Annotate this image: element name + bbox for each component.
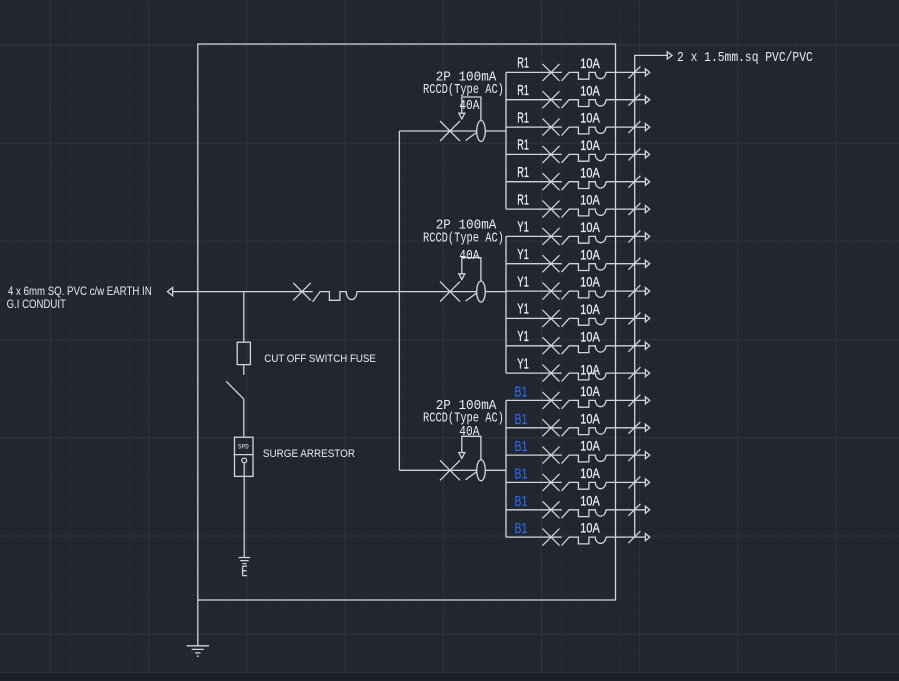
vertical RCCD distribution bus — [398, 131, 400, 470]
branch 6 arrowhead — [645, 206, 649, 213]
branch 8 wire after breaker — [606, 263, 646, 265]
branch 1 breaker element — [562, 72, 606, 80]
RCCD U3 feed wire — [399, 469, 476, 471]
branch 9 bus slash — [628, 285, 640, 297]
branch 14 arrowhead — [645, 424, 649, 431]
breaker group 3 bus — [505, 400, 507, 537]
svg-text:Y1: Y1 — [517, 274, 529, 290]
svg-text:B1: B1 — [514, 521, 527, 537]
svg-text:40A: 40A — [459, 99, 480, 114]
RCCD U3 leader arrowhead — [459, 453, 465, 459]
wire below fuse — [243, 365, 245, 375]
earth electrode symbol — [239, 558, 251, 564]
branch 7 wire after breaker — [606, 235, 646, 237]
svg-text:10A: 10A — [580, 220, 600, 236]
branch 18 bus slash — [628, 531, 640, 543]
svg-text:10A: 10A — [580, 111, 600, 127]
branch 2 breaker element — [562, 100, 606, 108]
svg-text:10A: 10A — [580, 363, 600, 379]
svg-text:10A: 10A — [580, 493, 600, 509]
RCCD U3 toroid blade — [466, 472, 477, 480]
svg-text:SPD: SPD — [238, 444, 249, 451]
svg-text:10A: 10A — [580, 302, 600, 318]
branch 9 breaker X — [543, 283, 560, 300]
svg-text:R1: R1 — [517, 56, 529, 72]
branch 12 breaker X — [543, 365, 560, 382]
branch circuit 7 wire — [506, 235, 562, 237]
branch 17 bus slash — [628, 504, 640, 516]
svg-text:R1: R1 — [517, 192, 529, 208]
branch circuit 15 wire — [506, 454, 562, 456]
enclosure earth stem — [197, 600, 199, 646]
branch circuit 16 wire — [506, 481, 562, 483]
drawing-limits boundary line — [0, 672, 899, 674]
branch 3 breaker X — [543, 119, 560, 136]
branch 1 arrowhead — [645, 69, 649, 76]
branch 3 wire after breaker — [606, 126, 646, 128]
breaker group 1 bus — [505, 72, 507, 209]
distribution board enclosure outline — [198, 44, 616, 600]
branch 10 wire after breaker — [606, 317, 646, 319]
RCCD U1 feed wire — [399, 130, 476, 132]
branch circuit 14 wire — [506, 427, 562, 429]
branch 13 wire after breaker — [606, 399, 646, 401]
branch circuit 17 wire — [506, 509, 562, 511]
svg-text:Y1: Y1 — [517, 329, 529, 345]
branch 7 bus slash — [628, 230, 640, 242]
branch 8 breaker X — [543, 255, 560, 272]
surge arrestor divider — [233, 454, 253, 456]
RCCD U1 leader — [462, 97, 481, 121]
dark strip below drawing limits — [0, 673, 899, 681]
outgoing feeder arrowhead — [667, 52, 672, 59]
svg-text:10A: 10A — [580, 521, 600, 537]
branch circuit 9 wire — [506, 290, 562, 292]
branch 6 breaker element — [562, 209, 606, 217]
branch 15 breaker X — [543, 447, 560, 464]
svg-text:R1: R1 — [517, 110, 529, 126]
svg-text:CUT OFF SWITCH FUSE: CUT OFF SWITCH FUSE — [264, 353, 376, 365]
branch 10 arrowhead — [645, 315, 649, 322]
incoming feeder wire — [173, 291, 313, 293]
svg-text:B1: B1 — [514, 439, 527, 455]
svg-text:RCCD(Type AC): RCCD(Type AC) — [423, 83, 504, 98]
branch 15 bus slash — [628, 449, 640, 461]
svg-text:B1: B1 — [514, 384, 527, 400]
branch 3 arrowhead — [645, 124, 649, 131]
branch circuit 12 wire — [506, 372, 562, 374]
branch 16 wire after breaker — [606, 481, 646, 483]
RCCD U3 isolator X — [440, 460, 460, 480]
feeder wire after breaker — [357, 291, 442, 293]
RCCD U2 leader — [462, 258, 481, 282]
wire down to cut-off switch fuse — [243, 292, 245, 343]
svg-text:SURGE ARRESTOR: SURGE ARRESTOR — [263, 448, 355, 460]
branch 4 breaker X — [543, 146, 560, 163]
branch circuit 2 wire — [506, 99, 562, 101]
branch 15 breaker element — [562, 455, 606, 463]
branch 8 bus slash — [628, 258, 640, 270]
branch 14 bus slash — [628, 422, 640, 434]
branch 17 breaker element — [562, 510, 606, 518]
svg-text:10A: 10A — [580, 384, 600, 400]
RCCD U1 output wire — [485, 130, 506, 132]
RCCD U1 leader arrowhead — [459, 113, 465, 119]
enclosure ground symbol — [187, 646, 209, 656]
branch 9 wire after breaker — [606, 290, 646, 292]
surge arrestor box — [235, 437, 254, 476]
branch 8 arrowhead — [645, 260, 649, 267]
branch circuit 5 wire — [506, 181, 562, 183]
branch 1 breaker X — [543, 64, 560, 81]
branch 18 breaker X — [543, 529, 560, 546]
RCCD U2 toroid blade — [466, 293, 477, 301]
RCCD U3 toroid ellipse — [477, 460, 486, 481]
svg-text:Y1: Y1 — [517, 302, 529, 318]
svg-text:R1: R1 — [517, 83, 529, 99]
branch 7 breaker X — [543, 228, 560, 245]
branch 11 breaker X — [543, 337, 560, 354]
branch 6 bus slash — [628, 203, 640, 215]
branch circuit 3 wire — [506, 126, 562, 128]
RCCD U2 isolator X — [440, 282, 460, 302]
svg-text:10A: 10A — [580, 247, 600, 263]
svg-text:Y1: Y1 — [517, 356, 529, 372]
branch 5 bus slash — [628, 176, 640, 188]
branch 18 wire after breaker — [606, 536, 646, 538]
svg-text:10A: 10A — [580, 138, 600, 154]
branch 4 breaker element — [562, 154, 606, 162]
main breaker element — [313, 292, 357, 302]
branch 15 wire after breaker — [606, 454, 646, 456]
branch 3 bus slash — [628, 121, 640, 133]
branch 12 bus slash — [628, 367, 640, 379]
branch 1 wire after breaker — [606, 71, 646, 73]
svg-text:10A: 10A — [580, 439, 600, 455]
branch 6 wire after breaker — [606, 208, 646, 210]
branch 1 bus slash — [628, 66, 640, 78]
branch 4 wire after breaker — [606, 153, 646, 155]
switch blade — [226, 381, 244, 399]
branch circuit 18 wire — [506, 536, 562, 538]
branch 11 arrowhead — [645, 342, 649, 349]
branch circuit 8 wire — [506, 263, 562, 265]
main isolator X — [293, 283, 310, 300]
wire to surge arrestor — [243, 399, 245, 437]
RCCD U2 feed wire — [442, 291, 477, 293]
branch 2 bus slash — [628, 94, 640, 106]
branch 11 wire after breaker — [606, 345, 646, 347]
branch 12 arrowhead — [645, 370, 649, 377]
incoming feeder arrowhead — [167, 288, 172, 296]
surge arrestor contact circle — [242, 458, 247, 463]
svg-text:G.I CONDUIT: G.I CONDUIT — [7, 297, 67, 311]
svg-text:10A: 10A — [580, 56, 600, 72]
outgoing circuits bus — [635, 55, 668, 537]
svg-text:10A: 10A — [580, 193, 600, 209]
branch 9 arrowhead — [645, 288, 649, 295]
branch 11 breaker element — [562, 346, 606, 354]
svg-text:R1: R1 — [517, 138, 529, 154]
branch 10 bus slash — [628, 312, 640, 324]
svg-text:10A: 10A — [580, 83, 600, 99]
branch 13 bus slash — [628, 394, 640, 406]
branch 13 breaker element — [562, 400, 606, 408]
branch 6 breaker X — [543, 201, 560, 218]
wire from surge arrestor to earth — [243, 463, 245, 558]
branch 2 wire after breaker — [606, 99, 646, 101]
branch 17 arrowhead — [645, 506, 649, 513]
cut-off fuse body — [237, 342, 250, 364]
svg-text:Y1: Y1 — [517, 220, 529, 236]
branch 16 breaker element — [562, 482, 606, 490]
branch circuit 1 wire — [506, 71, 562, 73]
branch 13 breaker X — [543, 392, 560, 409]
branch 5 breaker X — [543, 173, 560, 190]
svg-text:40A: 40A — [459, 425, 480, 440]
earth label E — [243, 566, 247, 575]
svg-text:R1: R1 — [517, 165, 529, 181]
branch 15 arrowhead — [645, 452, 649, 459]
svg-text:10A: 10A — [580, 466, 600, 482]
branch 12 breaker element — [562, 373, 606, 381]
RCCD U2 toroid ellipse — [477, 281, 486, 302]
branch 10 breaker X — [543, 310, 560, 327]
branch circuit 10 wire — [506, 317, 562, 319]
branch 16 breaker X — [543, 474, 560, 491]
svg-text:B1: B1 — [514, 494, 527, 510]
branch 14 breaker element — [562, 428, 606, 436]
branch 8 breaker element — [562, 264, 606, 272]
branch 17 wire after breaker — [606, 509, 646, 511]
RCCD U2 leader arrowhead — [459, 274, 465, 280]
svg-text:10A: 10A — [580, 411, 600, 427]
branch circuit 11 wire — [506, 345, 562, 347]
branch 18 breaker element — [562, 537, 606, 545]
branch 16 bus slash — [628, 476, 640, 488]
RCCD U3 leader — [462, 436, 481, 460]
branch 16 arrowhead — [645, 479, 649, 486]
RCCD U1 isolator X — [440, 121, 460, 141]
branch 4 arrowhead — [645, 151, 649, 158]
branch 7 arrowhead — [645, 233, 649, 240]
svg-text:Y1: Y1 — [517, 247, 529, 263]
branch 18 arrowhead — [645, 534, 649, 541]
svg-text:10A: 10A — [580, 329, 600, 345]
svg-text:40A: 40A — [459, 249, 480, 264]
svg-text:B1: B1 — [514, 466, 527, 482]
branch 3 breaker element — [562, 127, 606, 135]
branch 7 breaker element — [562, 236, 606, 244]
svg-text:10A: 10A — [580, 275, 600, 291]
branch 14 wire after breaker — [606, 427, 646, 429]
branch 5 breaker element — [562, 182, 606, 190]
branch 9 breaker element — [562, 291, 606, 299]
svg-text:B1: B1 — [514, 412, 527, 428]
branch 10 breaker element — [562, 318, 606, 326]
RCCD U3 output wire — [485, 469, 506, 471]
branch 14 breaker X — [543, 419, 560, 436]
svg-text:RCCD(Type AC): RCCD(Type AC) — [423, 231, 504, 246]
RCCD U1 toroid blade — [466, 133, 477, 141]
branch circuit 6 wire — [506, 208, 562, 210]
svg-text:2 x 1.5mm.sq PVC/PVC: 2 x 1.5mm.sq PVC/PVC — [677, 50, 813, 66]
branch 2 arrowhead — [645, 96, 649, 103]
branch 12 wire after breaker — [606, 372, 646, 374]
branch 11 bus slash — [628, 340, 640, 352]
branch circuit 4 wire — [506, 153, 562, 155]
branch 5 arrowhead — [645, 178, 649, 185]
branch 2 breaker X — [543, 91, 560, 108]
branch circuit 13 wire — [506, 399, 562, 401]
branch 17 breaker X — [543, 501, 560, 518]
branch 5 wire after breaker — [606, 181, 646, 183]
RCCD U2 output wire — [485, 291, 506, 293]
svg-text:10A: 10A — [580, 165, 600, 181]
branch 13 arrowhead — [645, 397, 649, 404]
svg-text:4 x 6mm SQ. PVC c/w EARTH IN: 4 x 6mm SQ. PVC c/w EARTH IN — [8, 284, 152, 298]
branch 4 bus slash — [628, 148, 640, 160]
breaker group 2 bus — [505, 236, 507, 373]
RCCD U1 toroid ellipse — [477, 121, 486, 142]
